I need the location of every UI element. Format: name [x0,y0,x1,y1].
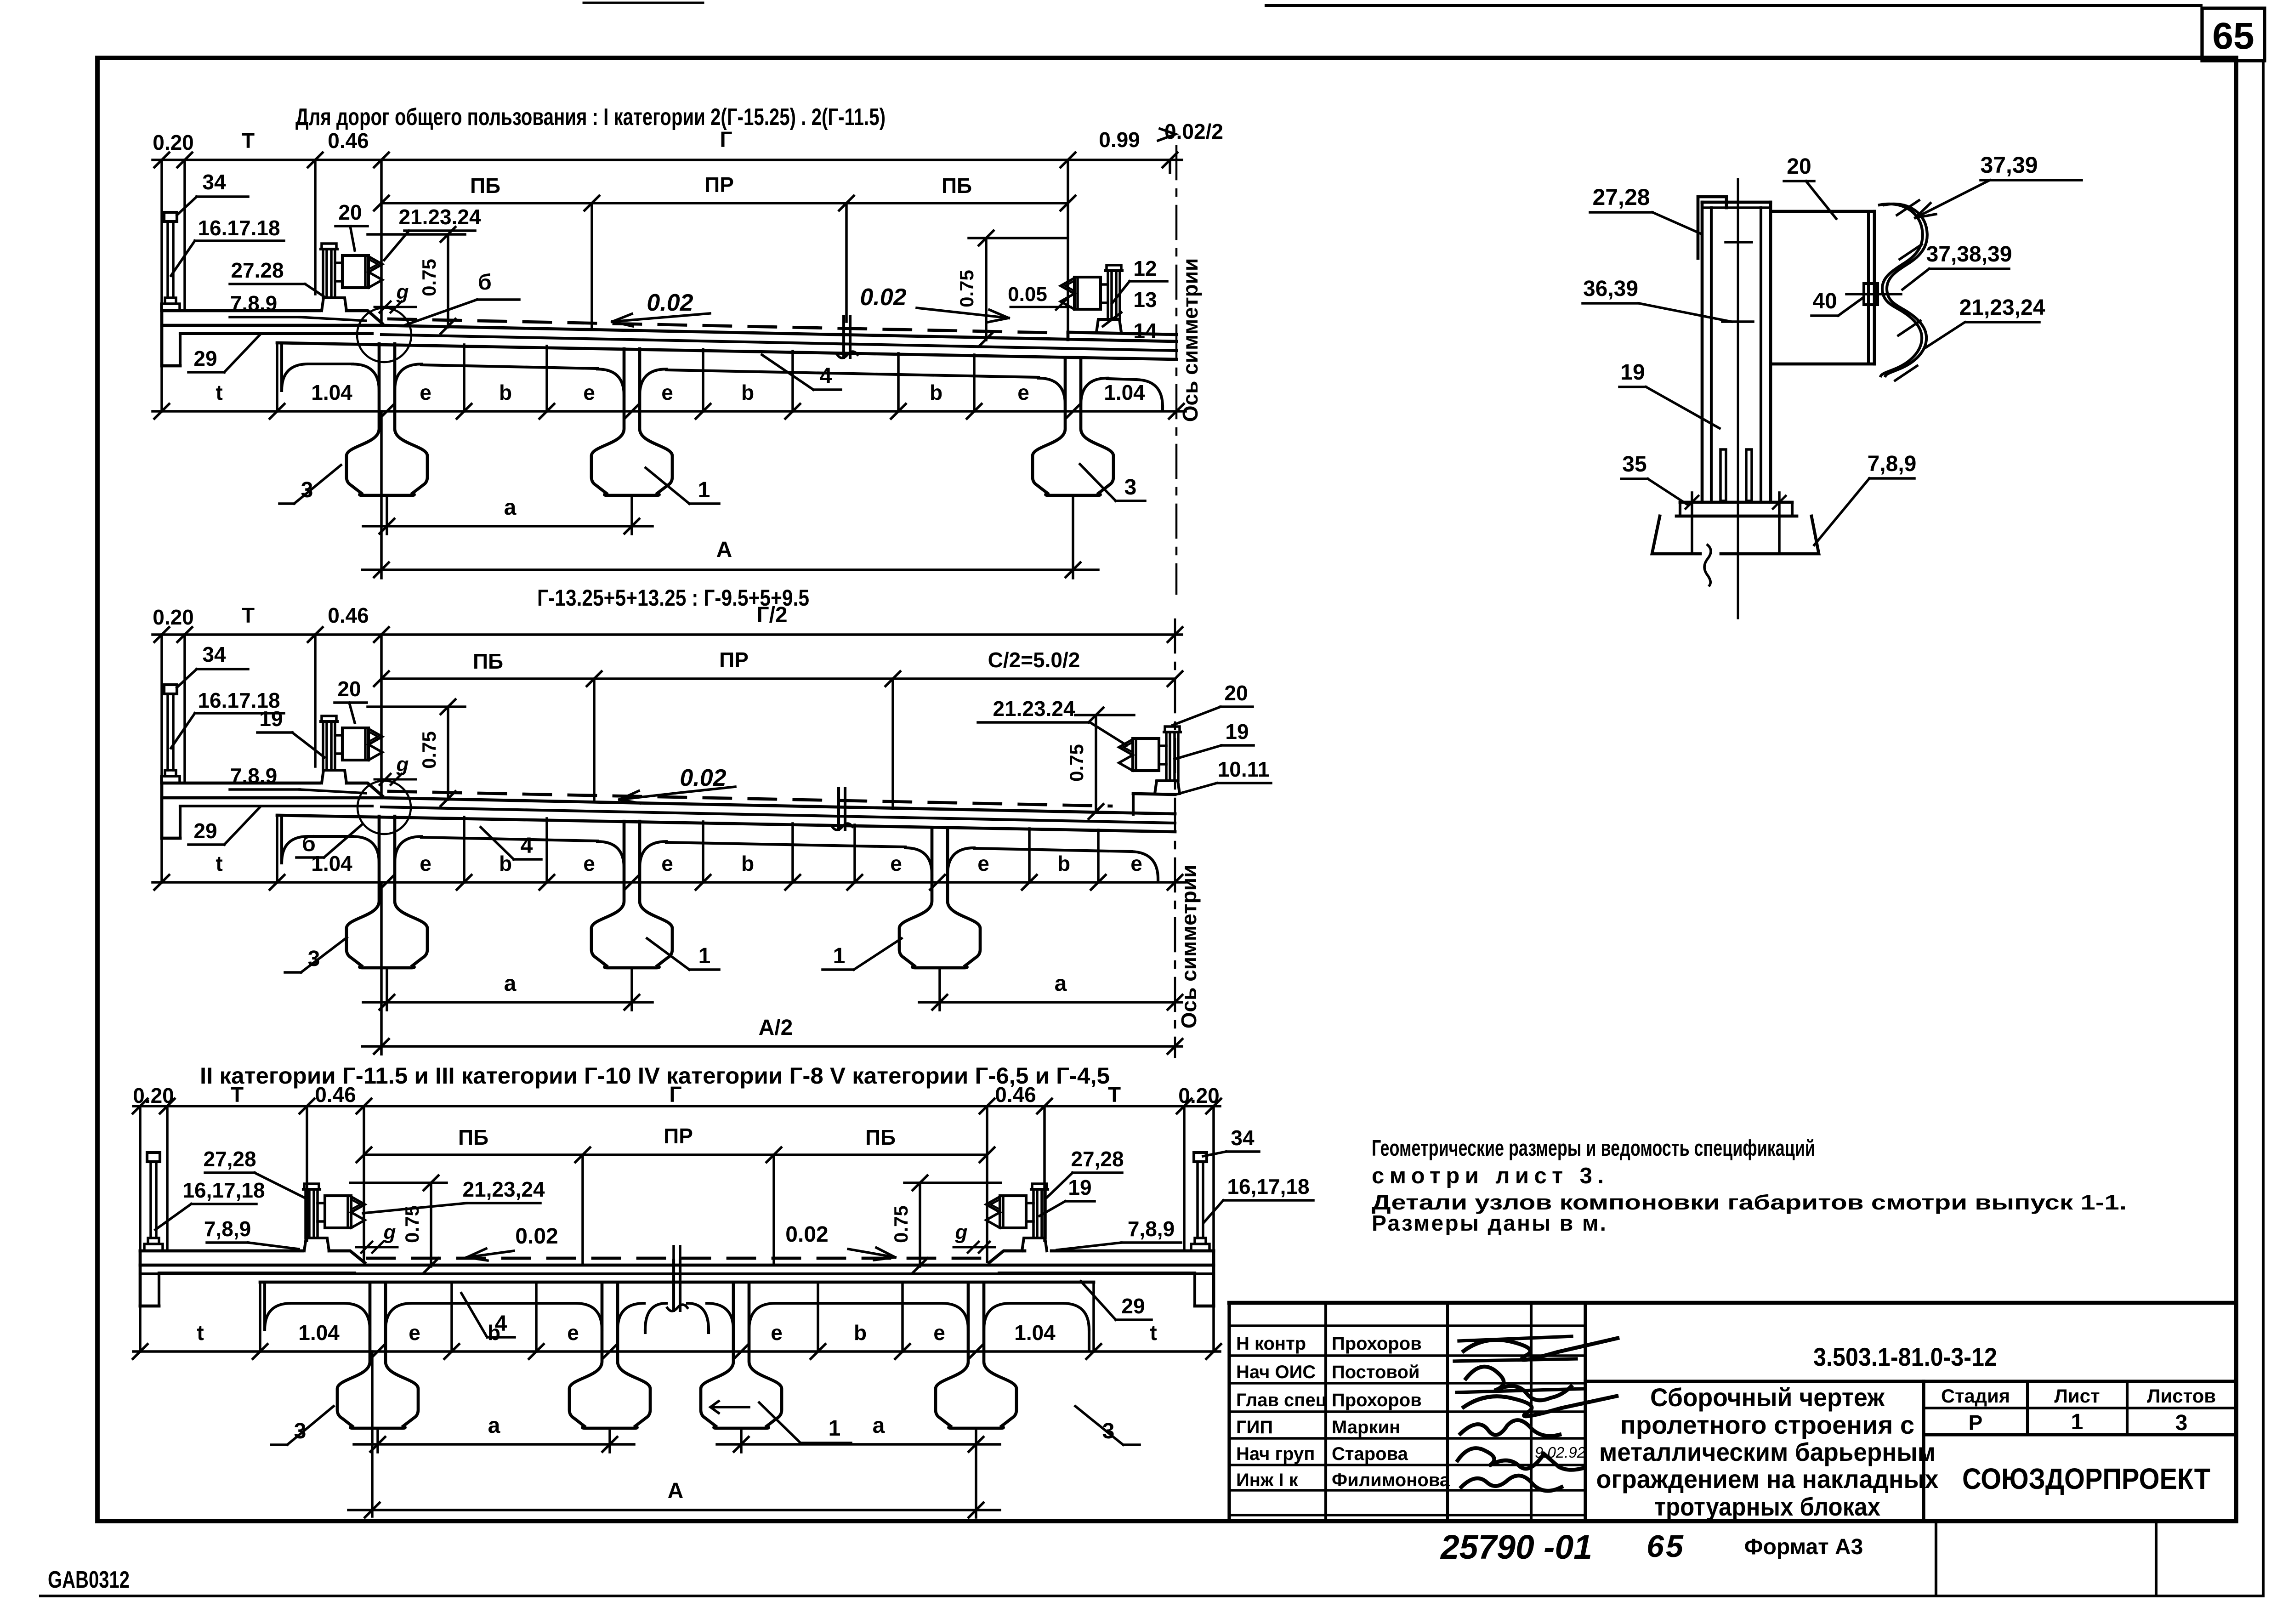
svg-text:0.46: 0.46 [315,1083,356,1107]
svg-text:Для дорог общего пользования :: Для дорог общего пользования : I категор… [295,104,886,131]
svg-text:Н контр: Н контр [1236,1334,1306,1354]
svg-text:g: g [383,1221,396,1244]
svg-text:Формат А3: Формат А3 [1744,1535,1863,1559]
svg-text:10.11: 10.11 [1218,757,1270,781]
svg-text:29: 29 [193,346,217,370]
svg-text:16,17,18: 16,17,18 [1227,1175,1309,1198]
svg-text:e: e [933,1321,945,1345]
svg-text:1.04: 1.04 [1104,380,1145,404]
svg-text:3: 3 [1102,1419,1115,1443]
svg-text:1: 1 [833,944,846,968]
svg-text:e: e [890,852,902,875]
svg-text:Сборочный чертеж: Сборочный чертеж [1650,1383,1885,1412]
svg-text:b: b [741,380,754,404]
svg-text:27.28: 27.28 [231,258,284,282]
svg-text:g: g [396,281,409,303]
svg-text:7,8,9: 7,8,9 [1128,1217,1175,1241]
svg-text:34: 34 [202,170,226,194]
svg-text:1: 1 [698,944,711,968]
svg-text:Размеры даны в м.: Размеры даны в м. [1372,1211,1606,1236]
svg-text:1.04: 1.04 [1014,1321,1056,1345]
svg-text:ПБ: ПБ [473,649,503,673]
svg-text:0.75: 0.75 [1066,744,1087,782]
svg-text:ГИП: ГИП [1236,1417,1273,1437]
svg-text:Прохоров: Прохоров [1332,1390,1422,1410]
svg-text:3: 3 [1124,475,1137,500]
svg-text:20: 20 [1787,154,1811,179]
svg-text:A: A [668,1479,684,1503]
svg-text:Листов: Листов [2147,1385,2216,1407]
svg-text:ограждением на накладных: ограждением на накладных [1596,1465,1939,1493]
svg-text:g: g [396,753,409,776]
svg-text:СОЮЗДОРПРОЕКТ: СОЮЗДОРПРОЕКТ [1962,1462,2210,1495]
svg-text:e: e [420,852,431,875]
svg-text:b: b [741,852,754,875]
svg-text:0.75: 0.75 [890,1205,912,1243]
svg-text:e: e [583,380,595,404]
svg-text:e: e [1130,852,1142,875]
svg-text:a: a [504,971,517,996]
svg-text:A: A [716,538,732,562]
svg-text:13: 13 [1133,288,1157,312]
svg-text:ПР: ПР [704,173,734,197]
svg-text:Маркин: Маркин [1332,1417,1400,1437]
svg-text:0.75: 0.75 [418,259,440,296]
svg-text:0.20: 0.20 [153,131,194,154]
svg-text:ПБ: ПБ [865,1125,896,1149]
svg-text:b: b [854,1321,867,1345]
svg-text:e: e [583,852,595,875]
svg-text:19: 19 [1620,360,1645,385]
svg-text:Г: Г [669,1083,681,1107]
svg-text:Глав спец: Глав спец [1236,1390,1327,1410]
svg-text:Г: Г [720,128,732,152]
svg-text:7.8.9: 7.8.9 [230,764,277,788]
svg-text:Ось симметрии: Ось симметрии [1178,258,1202,422]
svg-text:a: a [1055,971,1067,996]
svg-text:1: 1 [829,1416,841,1441]
svg-text:16,17,18: 16,17,18 [182,1178,265,1202]
svg-text:1.04: 1.04 [298,1321,340,1345]
svg-text:Р: Р [1969,1411,1983,1435]
svg-text:21,23,24: 21,23,24 [1959,295,2045,320]
svg-text:1: 1 [698,478,710,502]
svg-text:b: b [930,380,942,404]
svg-text:Нач ОИС: Нач ОИС [1236,1362,1316,1382]
svg-text:Г/2: Г/2 [756,603,787,627]
svg-text:20: 20 [338,200,362,224]
svg-text:4: 4 [820,364,832,388]
svg-text:ПБ: ПБ [942,174,972,198]
svg-text:e: e [771,1321,783,1345]
svg-text:t: t [216,852,222,875]
svg-text:34: 34 [1231,1126,1255,1150]
svg-text:27,28: 27,28 [1071,1147,1124,1171]
svg-text:Постовой: Постовой [1332,1362,1419,1382]
svg-text:a: a [873,1414,885,1438]
svg-text:e: e [661,852,673,875]
svg-text:4: 4 [495,1312,507,1336]
svg-text:65: 65 [1646,1529,1685,1564]
svg-text:a: a [488,1414,500,1438]
svg-text:3: 3 [2175,1411,2188,1435]
svg-text:35: 35 [1622,452,1646,477]
svg-text:0.20: 0.20 [133,1084,174,1107]
svg-text:1.04: 1.04 [311,852,352,875]
svg-text:Лист: Лист [2054,1385,2100,1407]
svg-text:0.02: 0.02 [647,290,693,316]
svg-text:Стадия: Стадия [1941,1385,2010,1407]
svg-text:20: 20 [337,677,361,701]
svg-text:б: б [302,832,316,856]
svg-text:1: 1 [2071,1410,2084,1434]
svg-text:14: 14 [1133,319,1157,343]
svg-text:e: e [1017,380,1029,404]
svg-text:0.05: 0.05 [1008,283,1047,306]
svg-text:0.02: 0.02 [515,1224,558,1249]
svg-text:4: 4 [521,834,533,858]
svg-text:g: g [955,1221,968,1244]
svg-text:16.17.18: 16.17.18 [198,216,280,240]
svg-text:0.02: 0.02 [785,1222,828,1247]
svg-text:0.46: 0.46 [328,129,369,153]
svg-text:0.99: 0.99 [1099,128,1140,152]
svg-text:t: t [1150,1321,1157,1345]
svg-text:37,38,39: 37,38,39 [1926,242,2012,267]
svg-text:19: 19 [259,707,283,731]
svg-text:25790 -01: 25790 -01 [1440,1528,1592,1566]
svg-text:пролетного строения с: пролетного строения с [1620,1410,1914,1439]
svg-text:21.23.24: 21.23.24 [993,697,1075,721]
svg-text:27,28: 27,28 [1592,184,1650,210]
svg-text:21,23,24: 21,23,24 [462,1177,545,1201]
svg-text:e: e [420,380,431,404]
svg-text:65: 65 [2212,15,2254,57]
svg-text:ПБ: ПБ [458,1125,488,1149]
svg-text:ПБ: ПБ [470,174,500,198]
svg-text:b: b [499,380,512,404]
svg-text:ПР: ПР [664,1124,693,1148]
svg-text:19: 19 [1068,1175,1091,1199]
svg-text:0.75: 0.75 [418,731,440,769]
svg-text:e: e [661,380,673,404]
svg-text:ПР: ПР [719,648,749,672]
svg-text:Старова: Старова [1332,1444,1408,1464]
svg-text:e: e [409,1321,420,1345]
svg-text:21.23.24: 21.23.24 [398,205,481,229]
svg-text:тротуарных блоках: тротуарных блоках [1654,1492,1880,1521]
svg-text:7.8.9: 7.8.9 [230,291,277,315]
svg-text:0.75: 0.75 [401,1205,423,1243]
svg-text:GAB0312: GAB0312 [48,1567,130,1593]
svg-text:b: b [1057,852,1070,875]
svg-text:29: 29 [1121,1294,1145,1318]
svg-text:T: T [242,129,255,153]
svg-text:T: T [231,1083,244,1107]
svg-text:12: 12 [1133,256,1157,280]
svg-text:Детали узлов компоновки габари: Детали узлов компоновки габаритов смотри… [1372,1191,2127,1214]
svg-text:1.04: 1.04 [311,380,352,404]
svg-text:3.503.1-81.0-3-12: 3.503.1-81.0-3-12 [1813,1342,1997,1371]
svg-text:0.02: 0.02 [860,284,906,311]
svg-text:Прохоров: Прохоров [1332,1334,1422,1354]
svg-text:0.20: 0.20 [1178,1084,1220,1107]
svg-text:б: б [478,270,492,295]
svg-text:40: 40 [1812,289,1837,313]
svg-text:37,39: 37,39 [1980,152,2038,178]
svg-text:0.20: 0.20 [153,605,194,629]
svg-text:34: 34 [202,642,226,666]
svg-text:Ось симметрии: Ось симметрии [1177,865,1201,1029]
svg-text:19: 19 [1225,720,1249,744]
svg-text:0.46: 0.46 [995,1083,1036,1107]
svg-text:7,8,9: 7,8,9 [1868,452,1917,476]
svg-text:0.02/2: 0.02/2 [1164,119,1223,143]
svg-text:36,39: 36,39 [1583,277,1638,301]
svg-text:t: t [197,1321,204,1345]
svg-text:T: T [242,603,255,627]
svg-text:металлическим барьерным: металлическим барьерным [1599,1437,1936,1466]
svg-text:a: a [504,495,517,520]
svg-text:T: T [1108,1083,1121,1107]
svg-text:0.46: 0.46 [328,603,369,627]
svg-text:e: e [977,852,989,875]
svg-text:С/2=5.0/2: С/2=5.0/2 [988,648,1080,672]
svg-text:t: t [216,380,222,404]
svg-text:27,28: 27,28 [203,1147,256,1171]
svg-text:Инж I к: Инж I к [1236,1470,1299,1490]
svg-text:e: e [567,1321,579,1345]
svg-text:20: 20 [1224,681,1248,705]
svg-text:A/2: A/2 [759,1016,793,1040]
svg-text:Геометрические размеры и ведо: Геометрические размеры и ведомость специ… [1372,1136,1815,1161]
svg-text:Нач груп: Нач груп [1236,1444,1315,1464]
svg-text:29: 29 [193,819,217,843]
svg-text:0.75: 0.75 [956,270,977,307]
svg-text:7,8,9: 7,8,9 [204,1217,251,1241]
svg-text:Филимонова: Филимонова [1332,1470,1450,1490]
